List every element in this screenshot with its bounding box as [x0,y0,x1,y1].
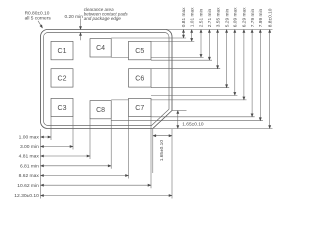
svg-text:1.01 max: 1.01 max [189,7,195,27]
svg-text:C7: C7 [135,105,144,112]
svg-text:1.65±0.10: 1.65±0.10 [159,140,165,162]
svg-text:10.62 min: 10.62 min [17,183,39,189]
svg-text:6.09 max: 6.09 max [233,7,239,27]
svg-text:and package edge: and package edge [84,16,122,21]
svg-text:C1: C1 [58,48,67,55]
svg-text:1.65±0.10: 1.65±0.10 [182,121,204,127]
svg-text:8.62 max: 8.62 max [19,173,40,179]
svg-text:C3: C3 [58,105,67,112]
svg-text:8.8±0.10: 8.8±0.10 [267,8,273,27]
svg-text:C4: C4 [96,45,105,52]
svg-text:0.20 min: 0.20 min [65,14,84,20]
svg-text:C8: C8 [96,107,105,114]
svg-text:2.51 min: 2.51 min [199,8,205,27]
svg-text:C2: C2 [58,75,67,82]
svg-text:12.30±0.10: 12.30±0.10 [14,193,39,199]
svg-text:6.81 min: 6.81 min [20,163,39,169]
svg-text:3.55 max: 3.55 max [215,7,221,27]
svg-text:7.79 min: 7.79 min [250,8,256,27]
svg-text:3.00 min: 3.00 min [20,144,39,150]
svg-text:1.00 max: 1.00 max [19,135,40,141]
svg-text:5.29 min: 5.29 min [224,8,230,27]
svg-text:2.71 min: 2.71 min [207,8,213,27]
svg-text:C6: C6 [135,75,144,82]
svg-text:7.99 min: 7.99 min [258,8,264,27]
svg-text:0.81 max: 0.81 max [181,7,187,27]
svg-text:C5: C5 [135,48,144,55]
svg-text:all 5 corners: all 5 corners [25,15,52,21]
svg-text:6.29 max: 6.29 max [242,7,248,27]
svg-text:4.81 max: 4.81 max [19,154,40,160]
